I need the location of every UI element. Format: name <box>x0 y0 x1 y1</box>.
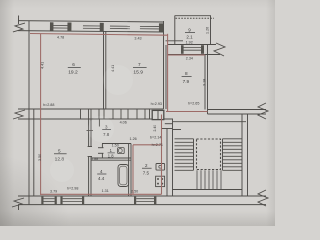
stair treads right <box>223 139 243 171</box>
svg-text:1.26: 1.26 <box>130 137 137 141</box>
room 8 label <box>182 71 192 84</box>
svg-text:1.50: 1.50 <box>112 143 119 147</box>
red kitchen2 left <box>132 145 134 195</box>
red left boundary <box>40 34 42 195</box>
bottom window D jambs <box>41 197 43 205</box>
stair treads right boundary <box>222 139 224 171</box>
room 9 window jamb R <box>201 45 204 54</box>
svg-text:2.1: 2.1 <box>186 35 193 40</box>
svg-text:h=2.88: h=2.88 <box>43 103 54 107</box>
svg-text:7: 7 <box>138 62 141 67</box>
lower flight steps <box>197 170 221 189</box>
red room8 left <box>167 34 169 112</box>
kitchen stove box <box>156 176 165 186</box>
vent duct box <box>152 110 164 119</box>
svg-text:19.2: 19.2 <box>68 70 78 76</box>
svg-text:1.8: 1.8 <box>108 154 114 159</box>
wc top wall <box>102 143 131 145</box>
left wall inner face lower <box>33 109 35 196</box>
wc bottom wall <box>91 157 131 159</box>
room 2 label <box>142 163 152 175</box>
svg-text:15.9: 15.9 <box>133 70 143 76</box>
red room8 bottom <box>166 111 208 113</box>
window pier P3 <box>159 23 163 32</box>
wall tick room5 <box>87 130 94 132</box>
window pier P2 <box>100 23 104 32</box>
room 9 left wall <box>174 16 176 46</box>
stairwell right wall <box>241 114 243 196</box>
right upper break <box>258 103 268 119</box>
room 9 floor band top <box>168 44 216 46</box>
svg-text:2.50: 2.50 <box>131 189 138 193</box>
room 9 window jamb L <box>181 45 184 54</box>
elevator dashed shaft <box>197 139 221 170</box>
bottom outer wall bottom line <box>18 204 266 206</box>
bottom windows glazing <box>44 199 155 202</box>
room 9 right wall <box>210 16 212 45</box>
break right of room 9 band <box>214 43 225 56</box>
middle wall band top line <box>18 108 164 110</box>
wc left wall lower <box>101 153 103 158</box>
svg-text:1.26: 1.26 <box>206 27 210 34</box>
svg-text:3.50: 3.50 <box>38 154 42 161</box>
svg-text:h=2.71: h=2.71 <box>152 143 163 147</box>
red room8 top <box>168 54 205 56</box>
svg-text:2.34: 2.34 <box>186 57 193 61</box>
kitchen sink box <box>156 164 165 171</box>
svg-text:2: 2 <box>145 163 148 168</box>
svg-text:3.18: 3.18 <box>203 79 207 86</box>
left outer wall <box>28 21 30 205</box>
balcony door threshold <box>166 40 184 42</box>
room 9 window glazing <box>184 48 202 51</box>
door jamb ticks room5 <box>88 146 92 148</box>
stair treads left <box>175 139 194 171</box>
top-left break zigzag <box>13 23 25 32</box>
svg-text:1.92: 1.92 <box>186 41 193 45</box>
room 9 floor band bottom <box>168 54 220 56</box>
svg-text:3.43: 3.43 <box>134 36 141 40</box>
room 6 label <box>68 62 81 76</box>
bottom outer wall top line <box>18 195 266 197</box>
svg-text:7.9: 7.9 <box>183 79 190 84</box>
bathtub <box>118 165 129 187</box>
room 8 right wall <box>204 55 206 110</box>
wall bath/kitchen2 <box>128 144 130 197</box>
bottom-right break <box>258 190 268 206</box>
svg-text:h=2.98: h=2.98 <box>67 186 78 190</box>
red boundary lines <box>30 34 208 196</box>
dimension texts <box>38 27 210 194</box>
svg-text:4.4: 4.4 <box>98 176 105 181</box>
wall apartment/stair strip <box>166 129 168 197</box>
svg-text:1: 1 <box>110 148 113 153</box>
kitchen 4 label <box>97 169 106 181</box>
red bottom boundary <box>41 193 162 195</box>
room8 bottom band to right break <box>208 109 267 111</box>
stairwell bottom inner wall <box>173 189 243 191</box>
svg-text:7.5: 7.5 <box>143 170 150 175</box>
strip landing line <box>162 128 173 130</box>
window pier P1b <box>67 22 71 31</box>
svg-text:h=2.93: h=2.93 <box>151 102 162 106</box>
room 9 parapet top line <box>175 15 211 17</box>
room 7 label <box>133 62 147 76</box>
hall door leaf <box>98 119 100 127</box>
wall room5/hall upper <box>88 119 90 147</box>
wall room5/kitchen lower <box>88 157 90 197</box>
svg-text:6: 6 <box>72 62 75 67</box>
wc left wall upper <box>101 144 103 148</box>
top outer wall upper line <box>18 21 163 22</box>
scan watermark ghosts <box>50 65 133 182</box>
stairwell top wall <box>173 121 247 123</box>
window pier P1 <box>50 22 54 31</box>
stairwell left wall <box>172 119 174 196</box>
strip stub A <box>165 123 173 125</box>
svg-text:8: 8 <box>185 71 188 76</box>
wc door jambs <box>98 147 104 149</box>
red top boundary <box>30 34 168 36</box>
strip stub B <box>173 129 182 131</box>
svg-text:3.79: 3.79 <box>50 189 57 193</box>
room 5 label <box>54 148 67 162</box>
red kitchen2 top <box>133 144 162 146</box>
middle wall band bottom line <box>18 118 173 120</box>
svg-text:4: 4 <box>100 169 103 174</box>
svg-text:0.88: 0.88 <box>91 157 98 161</box>
room 9 label <box>185 27 195 39</box>
top-left wall break tick <box>17 16 19 24</box>
svg-text:4.41: 4.41 <box>40 62 44 69</box>
wall room7/room8 <box>163 21 165 109</box>
svg-text:2.40: 2.40 <box>153 125 157 132</box>
svg-text:1.31: 1.31 <box>102 189 109 193</box>
svg-text:4.06: 4.06 <box>120 120 127 124</box>
window W1 glazing room6 <box>53 26 159 29</box>
hall 3 label <box>102 124 111 136</box>
bottom-left break <box>12 198 24 207</box>
middle band jamb ticks <box>81 109 150 119</box>
svg-text:h=2.65: h=2.65 <box>188 102 199 106</box>
toilet <box>118 148 125 154</box>
wc label <box>108 148 115 159</box>
red lower right boundary <box>161 115 163 195</box>
svg-text:5: 5 <box>58 148 61 153</box>
top outer wall lower line <box>18 31 163 32</box>
wall room6/room7 <box>103 31 105 109</box>
svg-text:b=2.14: b=2.14 <box>150 135 161 139</box>
svg-text:9: 9 <box>188 27 191 32</box>
middle band left break <box>13 110 25 119</box>
room 9 parapet dotted line <box>176 17 215 19</box>
svg-text:4.78: 4.78 <box>57 36 64 40</box>
stair treads left boundary <box>193 139 195 171</box>
